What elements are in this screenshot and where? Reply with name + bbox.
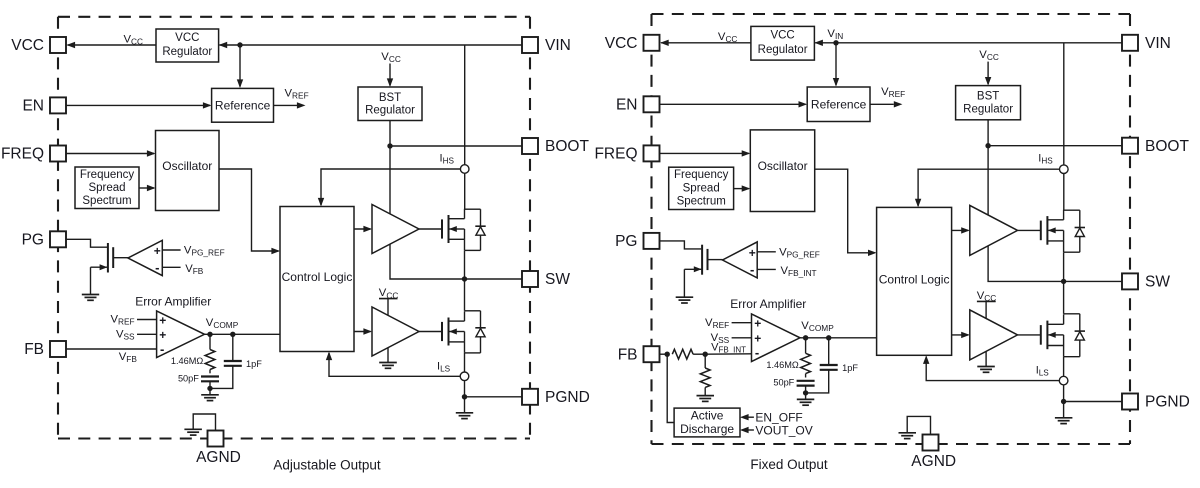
wire VCC into BST regulator (right diagram): [987, 62, 989, 85]
transistor low-side NMOS (left diagram): [441, 322, 443, 341]
node compensation resistor junction (left diagram): [207, 332, 212, 337]
Reference block (right diagram): [807, 87, 870, 122]
svg-text:Error Amplifier: Error Amplifier: [730, 297, 806, 311]
ground LS driver (left diagram): [379, 362, 397, 364]
node SW junction (left diagram): [462, 276, 467, 281]
body diode high-side (right diagram): [1079, 210, 1081, 227]
wire LS driver to ground (right diagram): [985, 351, 987, 366]
svg-text:PG: PG: [22, 232, 44, 249]
node compensation resistor junction (right diagram): [803, 335, 808, 340]
pin AGND (right diagram): [923, 435, 939, 451]
wire Frequency Spread Spectrum to Oscillator (right diagram): [734, 188, 749, 190]
svg-text:AGND: AGND: [196, 449, 241, 466]
current sense ILS circle (right diagram): [1059, 376, 1068, 385]
wire SW node to SW pin (right diagram): [1064, 280, 1122, 282]
Oscillator block (right diagram): [750, 130, 814, 212]
wire VCC into BST regulator (left diagram): [389, 64, 391, 86]
svg-text:1pF: 1pF: [842, 363, 858, 373]
BST Regulator block (right diagram): [956, 86, 1021, 120]
wire EN to Reference (left diagram): [66, 104, 210, 106]
ground PG transistor (left diagram): [82, 294, 99, 296]
pin EN (right diagram): [644, 96, 660, 112]
wire EN_OFF into Active Discharge (right diagram): [742, 416, 754, 418]
wire LS driver output to gate (left diagram): [419, 331, 442, 333]
wire drain corner to diode branch LS (right diagram): [1064, 313, 1080, 315]
wire PG comparator minus input (right diagram): [757, 268, 776, 270]
svg-text:BOOT: BOOT: [1145, 138, 1189, 155]
wire VCC regulator to VCC pin (left diagram): [68, 44, 157, 46]
svg-text:FREQ: FREQ: [1, 146, 44, 163]
wire drain corner to diode branch HS (right diagram): [1064, 209, 1080, 211]
wire PGND node to ground (right diagram): [1063, 402, 1065, 418]
wire LS source to ILS circle (right diagram): [1063, 357, 1065, 377]
svg-text:AGND: AGND: [911, 453, 956, 470]
node BOOT junction (left diagram): [387, 143, 392, 148]
wire ILS sense to Control Logic (right diagram): [926, 357, 1059, 381]
svg-text:EN: EN: [22, 98, 44, 115]
svg-text:Adjustable Output: Adjustable Output: [273, 458, 381, 473]
capacitor 50pF (left diagram): [209, 370, 211, 374]
node PGND junction (left diagram): [462, 394, 467, 399]
svg-text:Regulator: Regulator: [758, 44, 808, 56]
wire HS source to SW node (right diagram): [1063, 252, 1065, 281]
pin PG (left diagram): [50, 231, 66, 247]
wire BST output to BOOT (left diagram): [389, 121, 391, 147]
svg-text:VIN: VIN: [1145, 35, 1171, 52]
wire PG comparator plus input (left diagram): [162, 249, 180, 251]
ground AGND symbol (left diagram): [184, 428, 202, 430]
svg-text:+: +: [749, 246, 756, 260]
ground compensation network (left diagram): [201, 394, 219, 396]
svg-text:50pF: 50pF: [773, 378, 794, 388]
svg-text:Control Logic: Control Logic: [282, 270, 353, 284]
wire HS driver output to gate (left diagram): [419, 228, 442, 230]
svg-text:+: +: [154, 244, 161, 258]
wire Reference VREF output (left diagram): [274, 104, 298, 106]
capacitor 1pF (right diagram): [828, 338, 830, 365]
svg-text:50pF: 50pF: [178, 373, 199, 383]
svg-text:+: +: [159, 313, 166, 327]
wire PG pin to PG pull-up transistor (left diagram): [66, 239, 107, 247]
svg-text:FREQ: FREQ: [594, 146, 637, 163]
svg-text:PG: PG: [615, 233, 637, 250]
capacitor 50pF (right diagram): [805, 374, 807, 378]
op-amp error amplifier (left diagram): [157, 311, 205, 358]
resistor FB divider lower (right diagram): [704, 354, 706, 368]
svg-text:Regulator: Regulator: [365, 104, 415, 116]
svg-text:1pF: 1pF: [246, 359, 262, 369]
pin SW (left diagram): [522, 271, 538, 287]
svg-text:1.46MΩ: 1.46MΩ: [171, 356, 204, 366]
ground AGND symbol (right diagram): [899, 432, 917, 434]
wire FREQ to Oscillator (right diagram): [660, 152, 749, 154]
dashed package border (left diagram): [58, 17, 530, 439]
ground LS driver (right diagram): [977, 366, 995, 368]
wire VREF input stub (left diagram): [137, 319, 157, 321]
pin AGND (left diagram): [208, 431, 224, 447]
body diode high-side (left diagram): [480, 209, 482, 226]
pin VCC (left diagram): [50, 37, 66, 53]
pin EN (left diagram): [50, 97, 66, 113]
wire VIN to VCC regulator (right diagram): [815, 42, 1122, 44]
pin FREQ (right diagram): [644, 145, 660, 161]
VIN rail branch down (left diagram): [464, 45, 466, 165]
wire FB pin to error amplifier (left diagram): [66, 348, 157, 350]
dashed package border (right diagram): [652, 14, 1131, 444]
transistor low-side NMOS (right diagram): [1040, 325, 1042, 345]
wire HS source to SW node (left diagram): [464, 250, 466, 279]
wire drain corner to diode branch HS (left diagram): [465, 208, 481, 210]
transistor PG open-drain NMOS (right diagram): [701, 245, 703, 275]
wire HS driver output to gate (right diagram): [1018, 229, 1041, 231]
pin PGND (right diagram): [1122, 394, 1138, 410]
wire SW node to SW pin (left diagram): [465, 278, 523, 280]
svg-text:VCC: VCC: [175, 32, 199, 44]
svg-text:Error Amplifier: Error Amplifier: [135, 294, 211, 308]
wire SW node down to LS drain (right diagram): [1063, 281, 1065, 313]
svg-text:Frequency: Frequency: [674, 169, 729, 181]
wire AGND pin to ground hook (left diagram): [193, 414, 215, 431]
wire ILS sense to Control Logic (left diagram): [329, 353, 460, 376]
pin VIN (right diagram): [1122, 35, 1138, 51]
VIN rail branch down (right diagram): [1063, 43, 1065, 165]
svg-text:BST: BST: [379, 92, 401, 104]
ground power stage (right diagram): [1055, 417, 1073, 419]
wire drain corner to diode branch LS (left diagram): [465, 310, 481, 312]
Frequency Spread Spectrum block (left diagram): [75, 167, 139, 209]
wire PG comparator output to gate (left diagram): [113, 257, 128, 259]
wire ILS circle to PGND node (left diagram): [464, 381, 466, 397]
svg-text:VCC: VCC: [11, 37, 44, 54]
svg-text:Reference: Reference: [811, 97, 867, 111]
ground compensation network (right diagram): [797, 398, 815, 400]
svg-text:-: -: [155, 260, 159, 275]
Control Logic block (left diagram): [280, 207, 354, 352]
wire LS source to ILS circle (left diagram): [464, 353, 466, 372]
wire to FB divider node (right diagram): [693, 353, 705, 355]
VCC Regulator block U-vccreg (right diagram): [751, 26, 815, 60]
pin PG (right diagram): [644, 233, 660, 249]
wire IHS sense to Control Logic (right diagram): [918, 169, 1059, 206]
body diode low-side (right diagram): [1079, 314, 1081, 331]
wire SW node down to LS drain (left diagram): [464, 279, 466, 311]
Oscillator block (left diagram): [156, 131, 220, 211]
pin BOOT (right diagram): [1122, 138, 1138, 154]
VCC Regulator block U-vccreg (left diagram): [156, 29, 219, 62]
wire EN to Reference (right diagram): [660, 103, 806, 105]
wire BST down to HS driver (left diagram): [389, 146, 391, 214]
op-amp PG comparator (right diagram): [723, 242, 758, 278]
svg-text:Spread: Spread: [88, 182, 125, 194]
op-amp error amplifier (right diagram): [752, 314, 801, 362]
svg-text:-: -: [755, 345, 759, 360]
wire VREF input stub (right diagram): [732, 322, 752, 324]
node BOOT junction (right diagram): [985, 143, 990, 148]
svg-text:Fixed Output: Fixed Output: [750, 457, 828, 472]
node VIN junction to reference (left diagram): [237, 42, 242, 47]
ground power stage (left diagram): [456, 412, 473, 414]
node compensation ground junction (right diagram): [803, 390, 808, 395]
wire VCC regulator to VCC pin (right diagram): [661, 42, 751, 44]
pin VCC (right diagram): [644, 35, 660, 51]
wire AGND pin to ground hook (right diagram): [907, 416, 930, 434]
svg-text:+: +: [754, 332, 761, 346]
wire divider node to error amplifier (right diagram): [705, 353, 751, 355]
current sense IHS circle (right diagram): [1060, 165, 1069, 174]
wire compensation to ground (right diagram): [805, 393, 807, 400]
wire IHS sense to Control Logic (left diagram): [321, 169, 460, 205]
node SW junction (right diagram): [1061, 279, 1066, 284]
svg-text:1.46MΩ: 1.46MΩ: [766, 360, 799, 370]
wire VCOMP to Control Logic (right diagram): [800, 337, 877, 339]
wire LS driver output to gate (right diagram): [1018, 334, 1041, 336]
svg-text:-: -: [750, 262, 754, 277]
wire BST down to HS driver (right diagram): [987, 146, 989, 215]
Control Logic block (right diagram): [877, 207, 952, 355]
svg-text:Oscillator: Oscillator: [162, 159, 212, 173]
transistor high-side NMOS (left diagram): [441, 219, 443, 238]
node PGND junction (right diagram): [1061, 399, 1066, 404]
wire PGND node to PGND pin (right diagram): [1064, 401, 1122, 403]
svg-text:Active: Active: [691, 408, 724, 422]
gate driver low-side buffer (left diagram): [372, 307, 419, 356]
wire VSS input stub (left diagram): [137, 333, 157, 335]
wire VOUT_OV into Active Discharge (right diagram): [742, 429, 754, 431]
wire HS driver return to SW (right diagram): [988, 246, 1062, 282]
pin VIN (left diagram): [522, 37, 538, 53]
wire PGND node to PGND pin (left diagram): [465, 396, 523, 398]
node compensation ground junction (left diagram): [207, 386, 212, 391]
wire FB node down to Active Discharge (right diagram): [667, 354, 674, 422]
wire Frequency Spread Spectrum to Oscillator (left diagram): [139, 187, 154, 189]
wire PG comparator plus input (right diagram): [757, 251, 776, 253]
wire Oscillator output to Control Logic (right diagram): [815, 169, 875, 253]
pin SW (right diagram): [1122, 273, 1138, 289]
wire ILS circle to PGND node (right diagram): [1063, 385, 1065, 402]
node compensation cap junction (left diagram): [230, 332, 235, 337]
VIN rail below IHS circle (left diagram): [464, 173, 466, 209]
svg-text:Reference: Reference: [215, 98, 271, 112]
transistor PG open-drain NMOS (left diagram): [107, 243, 109, 273]
wire VSS input stub (right diagram): [732, 337, 752, 339]
svg-text:+: +: [754, 317, 761, 331]
svg-text:Regulator: Regulator: [162, 46, 212, 58]
wire PGND node to ground (left diagram): [464, 397, 466, 413]
body diode low-side (left diagram): [480, 311, 482, 328]
ground PG transistor (right diagram): [676, 296, 694, 298]
svg-text:VCC: VCC: [605, 35, 638, 52]
svg-text:VCC: VCC: [770, 30, 794, 42]
svg-text:Oscillator: Oscillator: [758, 159, 808, 173]
svg-text:Frequency: Frequency: [80, 169, 135, 181]
wire VIN to VCC regulator (left diagram): [220, 44, 523, 46]
capacitor 1pF (left diagram): [232, 334, 234, 360]
wire PG comparator output to gate (right diagram): [708, 259, 723, 261]
svg-text:Spread: Spread: [683, 182, 720, 194]
VIN rail below IHS circle (right diagram): [1063, 174, 1065, 211]
BST Regulator block (left diagram): [358, 87, 422, 121]
wire Control Logic to HS driver (left diagram): [354, 228, 371, 230]
wire Reference VREF output (right diagram): [870, 103, 894, 105]
pin FB (left diagram): [50, 341, 66, 357]
svg-text:FB: FB: [618, 346, 638, 363]
Reference block (left diagram): [212, 88, 274, 122]
transistor high-side NMOS (right diagram): [1040, 221, 1042, 241]
wire Control Logic to LS driver (left diagram): [354, 331, 371, 333]
wire compensation to ground (left diagram): [209, 388, 211, 394]
svg-text:Control Logic: Control Logic: [879, 273, 950, 287]
svg-text:-: -: [160, 341, 164, 356]
svg-text:PGND: PGND: [545, 389, 590, 406]
current sense ILS circle (left diagram): [460, 372, 469, 381]
wire PG comparator minus input (left diagram): [162, 266, 180, 268]
svg-text:PGND: PGND: [1145, 394, 1190, 411]
wire FREQ to Oscillator (left diagram): [66, 153, 154, 155]
wire LS driver to ground (left diagram): [387, 348, 389, 363]
pin FREQ (left diagram): [50, 146, 66, 162]
wire VCOMP to Control Logic (left diagram): [205, 333, 281, 335]
wire divider resistor to ground (right diagram): [704, 387, 706, 395]
svg-text:SW: SW: [1145, 274, 1170, 291]
wire Control Logic to LS driver (right diagram): [952, 334, 969, 336]
node FB junction (right diagram): [660, 353, 668, 355]
wire PG transistor source to ground (left diagram): [90, 267, 92, 294]
wire BST output to BOOT (right diagram): [987, 120, 989, 146]
node VIN junction to reference (right diagram): [833, 40, 838, 45]
resistor compensation 1.46Mohm (left diagram): [209, 334, 211, 349]
svg-text:+: +: [159, 328, 166, 342]
wire Oscillator output to Control Logic (left diagram): [219, 169, 279, 251]
resistor compensation 1.46Mohm (right diagram): [805, 338, 807, 354]
pin BOOT (left diagram): [522, 138, 538, 154]
svg-text:Spectrum: Spectrum: [82, 195, 131, 207]
svg-text:FB: FB: [24, 341, 44, 358]
gate driver high-side buffer (left diagram): [372, 205, 419, 254]
node FB divider junction (right diagram): [703, 352, 708, 357]
svg-text:Spectrum: Spectrum: [677, 196, 726, 208]
svg-text:EN: EN: [616, 97, 638, 114]
wire HS driver return to SW (left diagram): [390, 244, 463, 279]
current sense IHS circle (left diagram): [460, 165, 469, 174]
svg-text:SW: SW: [545, 271, 570, 288]
Frequency Spread Spectrum block (right diagram): [669, 167, 734, 209]
gate driver low-side buffer (right diagram): [970, 310, 1018, 360]
svg-text:VOUT_OV: VOUT_OV: [755, 423, 812, 437]
wire junction down to Reference (right diagram): [835, 43, 837, 85]
svg-text:BOOT: BOOT: [545, 138, 589, 155]
ground FB divider (right diagram): [697, 395, 715, 397]
op-amp PG comparator (left diagram): [128, 240, 162, 275]
wire PG transistor source to ground (right diagram): [683, 269, 685, 297]
wire Control Logic to HS driver (right diagram): [952, 229, 969, 231]
svg-text:Discharge: Discharge: [680, 422, 734, 436]
svg-text:VIN: VIN: [545, 37, 571, 54]
wire PG pin to PG pull-up transistor (right diagram): [660, 241, 702, 249]
svg-text:BST: BST: [977, 91, 999, 103]
resistor FB series (right diagram): [672, 349, 693, 359]
Active Discharge block (right diagram): [674, 408, 740, 437]
gate driver high-side buffer (right diagram): [970, 205, 1018, 255]
svg-text:Regulator: Regulator: [963, 103, 1013, 115]
pin PGND (left diagram): [522, 389, 538, 405]
node compensation cap junction (right diagram): [826, 335, 831, 340]
wire junction down to Reference (left diagram): [239, 45, 241, 87]
pin FB (right diagram): [644, 346, 660, 362]
